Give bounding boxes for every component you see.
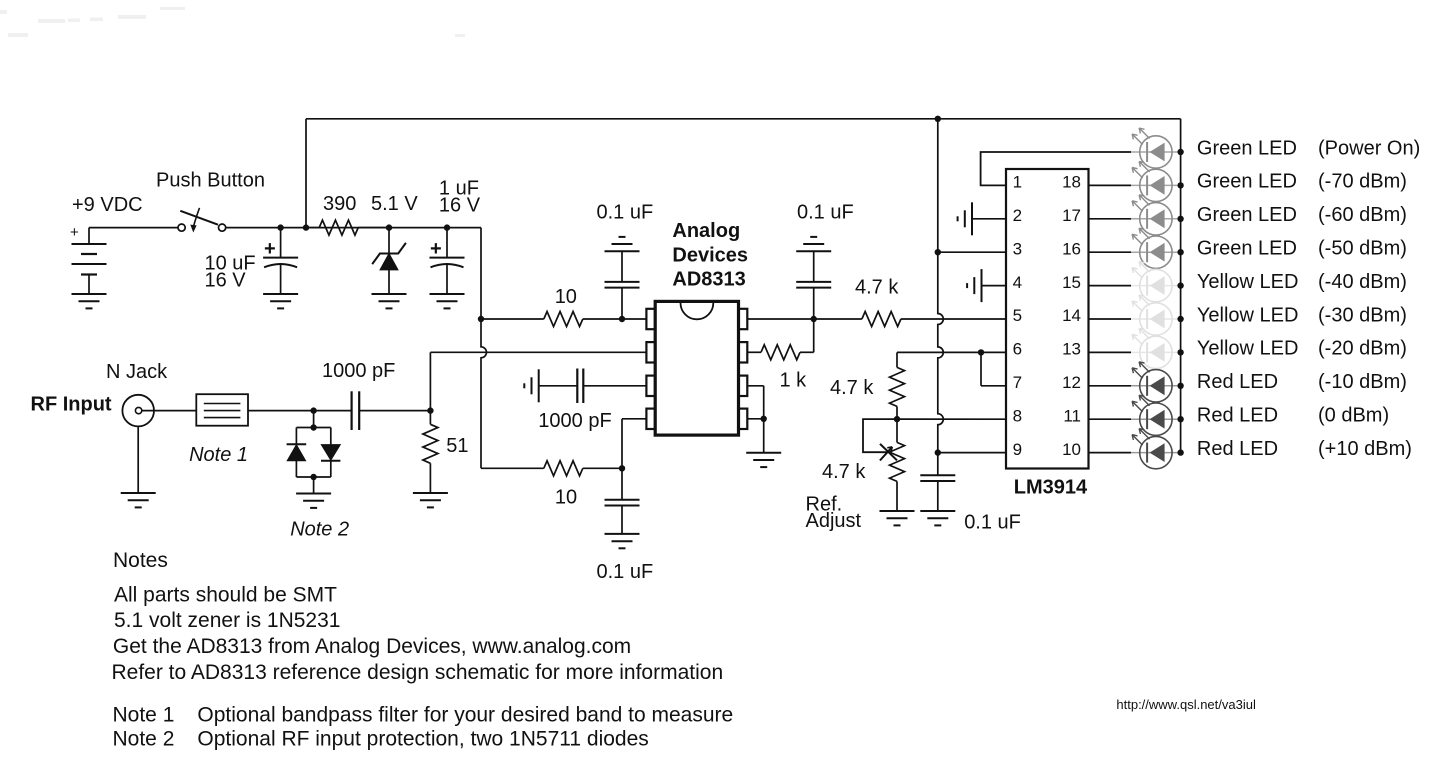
svg-text:6: 6 — [1013, 340, 1022, 359]
svg-text:(-70 dBm): (-70 dBm) — [1318, 171, 1407, 193]
svg-text:4.7 k: 4.7 k — [822, 461, 866, 483]
svg-text:5: 5 — [1013, 306, 1022, 325]
svg-text:17: 17 — [1062, 206, 1081, 225]
svg-text:http://www.qsl.net/va3iul: http://www.qsl.net/va3iul — [1116, 697, 1256, 712]
svg-text:Note 2: Note 2 — [113, 728, 175, 751]
svg-text:Yellow LED: Yellow LED — [1197, 271, 1299, 293]
svg-text:Yellow LED: Yellow LED — [1197, 304, 1299, 326]
svg-text:All parts should be SMT: All parts should be SMT — [114, 584, 337, 607]
svg-text:Refer to AD8313 reference desi: Refer to AD8313 reference design schemat… — [112, 661, 724, 684]
svg-text:(+10 dBm): (+10 dBm) — [1318, 438, 1412, 460]
svg-text:12: 12 — [1062, 373, 1081, 392]
svg-text:Red LED: Red LED — [1197, 405, 1278, 427]
svg-text:1: 1 — [1013, 173, 1022, 192]
svg-text:7: 7 — [1013, 373, 1022, 392]
svg-text:16: 16 — [1062, 239, 1081, 258]
svg-text:13: 13 — [1062, 340, 1081, 359]
svg-text:(-60 dBm): (-60 dBm) — [1318, 204, 1407, 226]
svg-text:Green LED: Green LED — [1197, 171, 1297, 193]
svg-text:1000 pF: 1000 pF — [538, 410, 611, 432]
svg-text:0.1 uF: 0.1 uF — [964, 512, 1021, 534]
svg-text:+: + — [430, 238, 442, 260]
svg-text:10: 10 — [555, 286, 577, 308]
svg-text:0.1 uF: 0.1 uF — [797, 202, 854, 224]
svg-text:14: 14 — [1062, 306, 1081, 325]
svg-text:5.1 V: 5.1 V — [371, 193, 418, 215]
svg-text:10: 10 — [555, 487, 577, 509]
svg-text:4.7 k: 4.7 k — [855, 277, 899, 299]
svg-text:(-10 dBm): (-10 dBm) — [1318, 371, 1407, 393]
svg-text:Adjust: Adjust — [806, 510, 862, 532]
svg-text:11: 11 — [1063, 406, 1081, 425]
svg-text:Get the AD8313 from Analog Dev: Get the AD8313 from Analog Devices, www.… — [113, 635, 631, 658]
svg-text:4: 4 — [1013, 273, 1022, 292]
svg-text:5.1 volt zener is 1N5231: 5.1 volt zener is 1N5231 — [114, 609, 340, 632]
svg-text:2: 2 — [1013, 206, 1022, 225]
svg-text:18: 18 — [1062, 173, 1081, 192]
svg-text:Optional bandpass filter for y: Optional bandpass filter for your desire… — [197, 704, 733, 727]
svg-text:Yellow LED: Yellow LED — [1197, 338, 1299, 360]
svg-text:1 k: 1 k — [780, 370, 808, 392]
svg-text:+: + — [70, 224, 79, 241]
svg-text:390: 390 — [323, 193, 356, 215]
svg-text:Green LED: Green LED — [1197, 204, 1297, 226]
svg-text:Push Button: Push Button — [156, 169, 265, 191]
svg-text:51: 51 — [446, 435, 468, 457]
svg-text:(-30 dBm): (-30 dBm) — [1318, 304, 1407, 326]
svg-text:16 V: 16 V — [439, 195, 481, 217]
svg-text:Optional RF input protection,: Optional RF input protection, two 1N5711… — [197, 728, 648, 751]
svg-text:8: 8 — [1013, 406, 1022, 425]
svg-text:(0 dBm): (0 dBm) — [1318, 405, 1389, 427]
svg-text:0.1 uF: 0.1 uF — [597, 561, 654, 583]
svg-text:9: 9 — [1013, 440, 1022, 459]
svg-text:15: 15 — [1062, 273, 1081, 292]
svg-text:(-20 dBm): (-20 dBm) — [1318, 338, 1407, 360]
svg-text:Green LED: Green LED — [1197, 238, 1297, 260]
svg-text:AD8313: AD8313 — [672, 268, 745, 290]
svg-text:16 V: 16 V — [205, 270, 247, 292]
svg-text:Notes: Notes — [113, 549, 168, 572]
svg-text:(Power On): (Power On) — [1318, 137, 1420, 159]
svg-text:RF Input: RF Input — [31, 393, 112, 415]
svg-text:Red LED: Red LED — [1197, 438, 1278, 460]
svg-text:Red LED: Red LED — [1197, 371, 1278, 393]
svg-text:3: 3 — [1013, 239, 1022, 258]
svg-text:Devices: Devices — [672, 244, 748, 266]
svg-text:(-40 dBm): (-40 dBm) — [1318, 271, 1407, 293]
svg-text:1000 pF: 1000 pF — [322, 360, 395, 382]
svg-text:Note 1: Note 1 — [113, 704, 175, 727]
svg-text:+9 VDC: +9 VDC — [72, 194, 143, 216]
svg-text:(-50 dBm): (-50 dBm) — [1318, 238, 1407, 260]
svg-text:Note 1: Note 1 — [189, 444, 248, 466]
svg-text:Analog: Analog — [672, 220, 740, 242]
svg-text:N Jack: N Jack — [106, 361, 168, 383]
svg-text:Green LED: Green LED — [1197, 137, 1297, 159]
svg-text:LM3914: LM3914 — [1014, 477, 1088, 499]
svg-text:0.1 uF: 0.1 uF — [597, 202, 654, 224]
svg-text:Note 2: Note 2 — [290, 519, 349, 541]
svg-text:10: 10 — [1062, 440, 1081, 459]
svg-text:4.7 k: 4.7 k — [830, 377, 874, 399]
svg-text:+: + — [264, 238, 276, 260]
